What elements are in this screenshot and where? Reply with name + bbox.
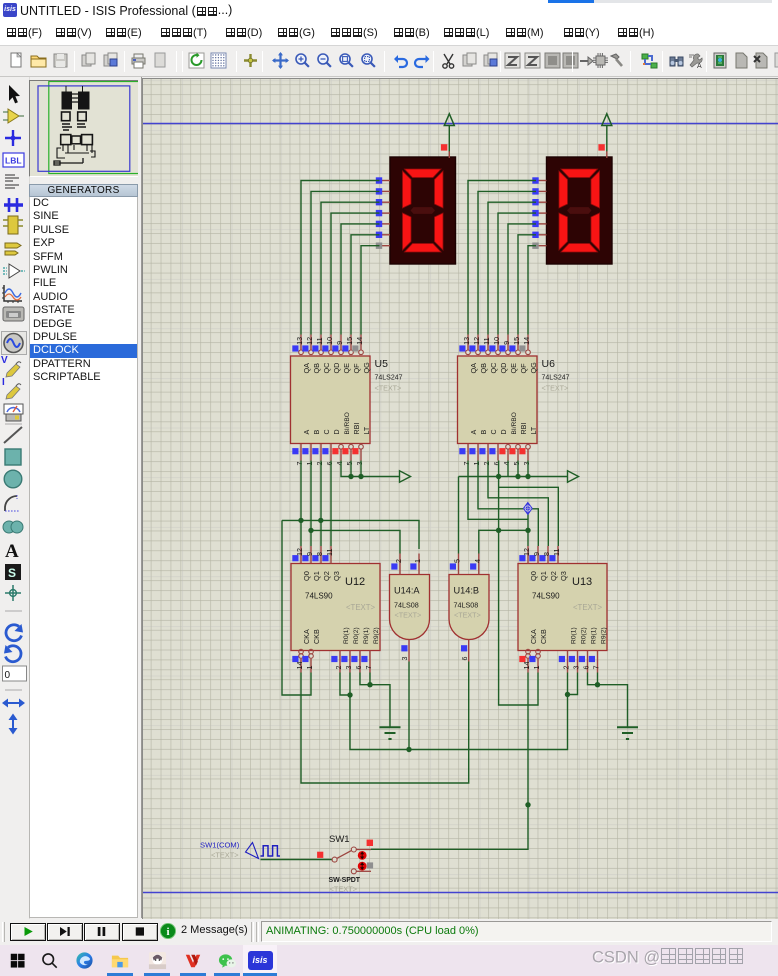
junction node 527/529 (525, 528, 530, 533)
wire display D2 segment 1 (468, 181, 536, 335)
svg-text:13: 13 (295, 337, 304, 345)
wire reset net y519 (282, 520, 419, 549)
value label 74LS08 of U14:A (394, 601, 421, 620)
svg-text:CKB: CKB (312, 629, 321, 644)
svg-text:U5: U5 (375, 358, 389, 370)
7-segment display D1 (376, 157, 456, 264)
junction U12 R9 node (367, 682, 372, 687)
svg-text:5: 5 (453, 559, 462, 563)
svg-text:R0(1): R0(1) (570, 627, 577, 644)
wire display D2 segment 2 (478, 191, 536, 334)
svg-text:RBI: RBI (520, 423, 528, 435)
svg-text:3: 3 (400, 657, 409, 661)
svg-text:QE: QE (342, 363, 351, 374)
svg-text:CKA: CKA (529, 629, 538, 644)
wire stub below origin marker (527, 509, 529, 519)
junction U12 R0 node (347, 692, 352, 697)
svg-text:3: 3 (572, 666, 581, 670)
wire U5.A to U12.Q0 (300, 461, 302, 547)
wire display D1 segment 7 (361, 246, 380, 335)
svg-text:BI/RBO: BI/RBO (344, 412, 351, 434)
wire U5 BI/RBO rail (341, 461, 399, 477)
svg-text:7: 7 (295, 462, 304, 466)
svg-text:QB: QB (312, 363, 321, 374)
svg-text:11: 11 (315, 337, 324, 344)
wire U6.3 drop (527, 461, 529, 477)
svg-text:11: 11 (482, 337, 491, 344)
AND gate U14:A 74LS08 (390, 554, 430, 662)
svg-text:SW1: SW1 (329, 834, 350, 845)
counter U12 74LS90 (291, 546, 380, 673)
svg-text:10: 10 (492, 337, 501, 345)
wire U6.1 to U13.Q1pin (478, 461, 538, 547)
svg-text:15: 15 (345, 337, 354, 345)
svg-text:5: 5 (345, 462, 354, 466)
svg-text:R0(1): R0(1) (343, 627, 350, 644)
svg-text:7: 7 (462, 462, 471, 466)
svg-text:2: 2 (482, 462, 491, 466)
svg-text:A: A (470, 430, 478, 435)
wire U6.6 net vertical (499, 461, 538, 706)
svg-text:3: 3 (355, 462, 364, 466)
svg-text:LT: LT (530, 426, 538, 434)
junction node CKA-SW (525, 802, 530, 807)
wire U13 R9 join (588, 673, 598, 685)
svg-text:QG: QG (362, 362, 371, 374)
wire U6 BI/RBO rail (459, 476, 568, 478)
svg-text:U14:A: U14:A (394, 586, 420, 596)
svg-text:A: A (5, 541, 19, 562)
wire display D1 segment 4 (331, 213, 380, 334)
junction node 497/529 (496, 528, 501, 533)
svg-text:A: A (697, 63, 702, 70)
wire display D1 segment 3 (321, 202, 380, 334)
svg-text:C: C (323, 429, 331, 434)
svg-text:<TEXT>: <TEXT> (573, 603, 602, 612)
svg-text:<TEXT>: <TEXT> (211, 851, 239, 860)
svg-text:74LS247: 74LS247 (375, 375, 403, 382)
svg-text:<TEXT>: <TEXT> (375, 384, 402, 393)
svg-text:9: 9 (335, 341, 344, 345)
wire display D1 segment 5 (341, 224, 380, 335)
svg-text:QA: QA (302, 363, 311, 374)
svg-text:Q1: Q1 (312, 571, 321, 581)
svg-text:10: 10 (325, 337, 334, 345)
svg-text:CKB: CKB (539, 629, 548, 644)
wire U12.CKA to rail782 (301, 662, 469, 784)
sheet border top (143, 123, 778, 125)
svg-text:2: 2 (562, 666, 571, 670)
svg-text:SW1(COM): SW1(COM) (200, 841, 240, 850)
wire net y529R to U14:B.4 (479, 530, 528, 553)
svg-text:7: 7 (364, 666, 373, 670)
wire U12 R0 join (340, 673, 350, 696)
svg-text:QA: QA (469, 363, 478, 374)
svg-text:9: 9 (502, 341, 511, 345)
wire display D2 segment 7 (528, 246, 536, 335)
svg-text:4: 4 (335, 462, 344, 466)
wire U6.5 drop (517, 461, 519, 477)
svg-text:13: 13 (462, 337, 471, 345)
junction node y519 Q2 (318, 518, 323, 523)
svg-text:74LS90: 74LS90 (305, 592, 333, 601)
ground symbol right (617, 727, 638, 739)
junction U6 rail p6 (496, 474, 501, 479)
label U6 (542, 358, 556, 370)
svg-text:<TEXT>: <TEXT> (395, 611, 422, 620)
wire net y529 to U14:A.2 (311, 530, 400, 553)
wire U5.B to U12.Q1 (310, 461, 312, 547)
svg-text:U13: U13 (572, 576, 592, 588)
svg-text:QF: QF (352, 363, 361, 374)
svg-text:S: S (8, 566, 16, 580)
junction U6 rail p5 (515, 474, 520, 479)
wire display D2 segment 5 (508, 224, 536, 335)
wire U12 R9 join (360, 673, 370, 685)
wire U5.LT drop (360, 461, 362, 477)
svg-text:12: 12 (522, 548, 531, 556)
svg-text:3: 3 (344, 666, 353, 670)
svg-text:QC: QC (322, 363, 331, 374)
svg-text:7: 7 (592, 666, 601, 670)
7-segment display D2 (532, 157, 612, 264)
svg-text:R0(2): R0(2) (580, 627, 587, 644)
wire display D1 segment 1 (301, 181, 380, 335)
wire U12 R9 to ground (370, 685, 390, 727)
label U14:B (454, 586, 480, 596)
svg-text:i: i (166, 926, 169, 938)
svg-text:A: A (303, 430, 311, 435)
svg-text:RBI: RBI (353, 423, 361, 435)
svg-text:74LS247: 74LS247 (542, 375, 570, 382)
svg-text:0: 0 (5, 670, 11, 681)
svg-text:R9(1): R9(1) (590, 627, 597, 644)
wire U13.CKA to SW1 (371, 673, 528, 850)
wire U13 R9 to ground (598, 685, 628, 727)
svg-text:2: 2 (334, 666, 343, 670)
svg-text:SW-SPDT: SW-SPDT (329, 877, 361, 884)
wire display D1 segment 2 (311, 191, 380, 334)
DCLOCK generator SW1(COM) (200, 841, 280, 860)
value label 74LS08 of U14:B (454, 601, 481, 620)
svg-text:V: V (1, 355, 8, 366)
svg-text:BI/RBO: BI/RBO (511, 412, 518, 434)
svg-text:1: 1 (413, 559, 422, 563)
wire U13 R0 join (568, 673, 578, 695)
svg-text:B: B (480, 430, 488, 435)
junction U6 rail p3 (525, 474, 530, 479)
label U5 (375, 358, 389, 370)
svg-text:6: 6 (325, 462, 334, 466)
junction U13 R9 node (595, 682, 600, 687)
svg-text:R0(2): R0(2) (353, 627, 360, 644)
svg-text:12: 12 (295, 548, 304, 556)
value label 74LS247 of U5 (375, 375, 403, 393)
wire CKB-U12 riser (282, 520, 311, 695)
svg-text:6: 6 (354, 666, 363, 670)
svg-text:1: 1 (532, 666, 541, 670)
AND gate U14:B 74LS08 (449, 554, 489, 662)
junction node y519 Q0 (298, 518, 303, 523)
svg-text:<TEXT>: <TEXT> (330, 885, 358, 894)
value label 74LS247 of U6 (542, 375, 570, 393)
wire display D1 segment 6 (351, 235, 380, 335)
svg-text:74LS08: 74LS08 (454, 601, 479, 610)
svg-text:1: 1 (305, 462, 314, 466)
wire display D2 segment 6 (518, 235, 536, 335)
svg-text:3: 3 (522, 462, 531, 466)
svg-text:1: 1 (472, 462, 481, 466)
wire U5.RBI drop (350, 461, 352, 477)
label U14:A (394, 586, 420, 596)
svg-text:Q1: Q1 (539, 571, 548, 581)
svg-text:74LS08: 74LS08 (394, 601, 419, 610)
output terminal arrow right of U6 (568, 471, 579, 482)
wire rail to U14:B.5 (458, 477, 460, 554)
svg-text:U14:B: U14:B (454, 586, 480, 596)
value label 74LS90 of U13 (532, 592, 602, 613)
wire R0 net to rail748 (350, 695, 568, 750)
svg-text:QC: QC (489, 363, 498, 374)
junction U5 rail RBI (348, 474, 353, 479)
power terminal above display D1 (441, 114, 454, 158)
svg-text:2: 2 (394, 559, 403, 563)
svg-text:QE: QE (509, 363, 518, 374)
svg-text:CKA: CKA (302, 629, 311, 644)
svg-text:LT: LT (363, 426, 371, 434)
wire display D2 segment 4 (498, 213, 536, 334)
svg-text:1: 1 (305, 666, 314, 670)
wire U6.4 drop (507, 461, 509, 477)
svg-text:6: 6 (492, 462, 501, 466)
svg-text:14: 14 (522, 337, 531, 345)
svg-text:Q3: Q3 (559, 571, 568, 581)
origin marker node (523, 502, 533, 516)
wire U14:A.3 drop (408, 662, 410, 750)
wire U6.7 to U13.Q0pin (468, 461, 528, 547)
svg-text:<TEXT>: <TEXT> (346, 603, 375, 612)
svg-text:2: 2 (315, 462, 324, 466)
svg-text:5: 5 (512, 462, 521, 466)
svg-text:R9(2): R9(2) (373, 627, 380, 644)
svg-text:U12: U12 (345, 576, 365, 588)
svg-text:Q2: Q2 (322, 571, 331, 581)
svg-text:R9(1): R9(1) (363, 627, 370, 644)
svg-text:Q0: Q0 (529, 571, 538, 581)
junction U5 rail LT (358, 474, 363, 479)
svg-text:QB: QB (479, 363, 488, 374)
svg-text:QD: QD (499, 363, 508, 374)
junction U13 R0 node (565, 692, 570, 697)
wire U6.2 to U13.Q2pin (488, 461, 548, 547)
svg-text:<TEXT>: <TEXT> (454, 611, 481, 620)
svg-text:Q0: Q0 (302, 571, 311, 581)
ground symbol left (380, 727, 401, 739)
svg-text:U6: U6 (542, 358, 556, 370)
output terminal arrow right of U5 (400, 471, 411, 482)
value label 74LS90 of U12 (305, 592, 375, 613)
junction rail748 U14:A out (406, 747, 411, 752)
svg-text:<TEXT>: <TEXT> (542, 384, 569, 393)
svg-text:74LS90: 74LS90 (532, 592, 560, 601)
svg-text:D: D (333, 429, 341, 434)
svg-text:6: 6 (582, 666, 591, 670)
junction node y529 Q1 (308, 528, 313, 533)
svg-text:11: 11 (552, 549, 561, 556)
svg-text:12: 12 (305, 337, 314, 345)
wire branch to U13.Q3pin (499, 487, 559, 546)
svg-text:6: 6 (460, 657, 469, 661)
svg-text:14: 14 (355, 337, 364, 345)
svg-text:14: 14 (522, 662, 531, 670)
svg-text:QF: QF (519, 363, 528, 374)
decoder U6 74LS247 (458, 335, 538, 466)
wire U5.D to U12.Q3 (330, 461, 332, 547)
decoder U5 74LS247 (291, 335, 371, 466)
svg-text:I: I (2, 377, 5, 388)
svg-text:4: 4 (473, 559, 482, 563)
wire DCLOCK generator to SW1 common (261, 859, 333, 861)
svg-text:QD: QD (332, 363, 341, 374)
wire U5.C to U12.Q2 (320, 461, 322, 547)
sheet border bottom (143, 892, 778, 894)
wire display D2 segment 3 (488, 202, 536, 334)
svg-text:C: C (490, 429, 498, 434)
svg-text:Q2: Q2 (549, 571, 558, 581)
svg-text:QG: QG (529, 362, 538, 374)
svg-text:12: 12 (472, 337, 481, 345)
svg-text:11: 11 (325, 549, 334, 556)
svg-text:D: D (500, 429, 508, 434)
label U13 (572, 576, 592, 588)
switch SW1 SW-SPDT (317, 834, 373, 894)
svg-text:14: 14 (295, 662, 304, 670)
svg-text:Q3: Q3 (332, 571, 341, 581)
label U12 (345, 576, 365, 588)
counter U13 74LS90 (518, 546, 607, 673)
svg-text:LBL: LBL (5, 156, 22, 166)
svg-text:R9(2): R9(2) (600, 627, 607, 644)
svg-text:15: 15 (512, 337, 521, 345)
svg-text:B: B (313, 430, 321, 435)
svg-text:4: 4 (502, 462, 511, 466)
power terminal above display D2 (598, 114, 611, 158)
